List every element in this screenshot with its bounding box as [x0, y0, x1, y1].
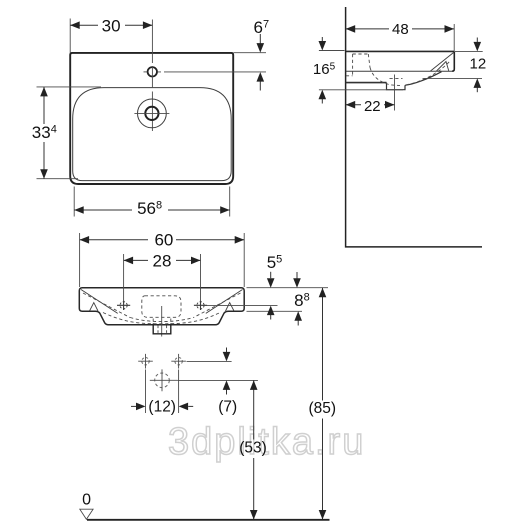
basin outer outline (plan) [70, 53, 233, 184]
svg-text:568: 568 [137, 199, 162, 218]
svg-text:88: 88 [294, 291, 310, 310]
plan vertical centerline [151, 20, 153, 132]
drain boss hidden dashes [158, 326, 167, 334]
dim 60 ext lines [80, 233, 245, 287]
bolt hole right [197, 302, 204, 309]
dim 8-8 arrows [296, 272, 298, 279]
dim 12 ext lines [455, 50, 483, 52]
datum triangle [80, 509, 93, 519]
dim (53) line + arrows [253, 380, 255, 519]
svg-text:30: 30 [102, 16, 121, 35]
dim (7) arrows [226, 348, 228, 354]
hidden bowl bottom dashed [130, 318, 194, 322]
dim 28 line + arrows [124, 259, 201, 261]
svg-text:12: 12 [470, 56, 487, 73]
svg-text:60: 60 [154, 230, 173, 249]
siphon line to right [178, 379, 258, 381]
dim 30 extension line left [69, 19, 71, 53]
basin right edge [452, 51, 454, 71]
hidden slope dashed left [83, 293, 130, 318]
svg-text:22: 22 [364, 98, 381, 115]
svg-text:165: 165 [313, 61, 336, 78]
hidden drain edges dashed [153, 319, 171, 325]
dim 48 ext right [453, 24, 455, 51]
fixing holes line to right [187, 360, 232, 362]
dim 6-7 arrows [259, 34, 261, 44]
hidden drain recess dashed [142, 296, 181, 318]
dim 30 line + arrows [70, 24, 152, 26]
dim 16-5 ext lines [319, 50, 345, 52]
dim (12) arrows outside [131, 405, 136, 407]
dim 5-5 arrows [270, 272, 272, 278]
fixing hole ext lines down [146, 370, 179, 414]
datum line [87, 519, 330, 521]
wall line [346, 7, 482, 247]
drain trap box [387, 83, 406, 90]
svg-text:67: 67 [254, 18, 270, 37]
dim 33-4 ext lines [37, 86, 102, 88]
V mark left [90, 303, 99, 311]
hidden drain opening (dashed) [390, 77, 403, 79]
bolt hole left [120, 302, 127, 309]
ext line bolt holes right (line2) [204, 305, 278, 307]
inner front slope diagonal [431, 53, 454, 71]
inner curve V marks [437, 62, 449, 72]
dim 22 line + arrows [346, 104, 395, 106]
faucet hole centerline to right (6-7 dim ref) [158, 71, 266, 73]
rim top line [346, 50, 455, 52]
svg-text:(7): (7) [218, 399, 237, 416]
svg-text:(53): (53) [239, 440, 267, 457]
faucet hole [148, 67, 157, 76]
ext line apron bottom right (line3) [247, 310, 303, 312]
siphon circle (dashed) [155, 373, 170, 388]
faucet hole left tick [144, 71, 148, 73]
fixing hole right [175, 358, 182, 365]
dim 12 arrows [476, 38, 478, 44]
V mark right [226, 303, 235, 311]
drain outer circle [138, 99, 167, 128]
svg-text:0: 0 [82, 491, 91, 508]
basin outline (front) [79, 288, 244, 325]
hidden bowl front curve (dashed) [406, 62, 450, 85]
drain boss [153, 325, 171, 334]
inner slope diagonal left [81, 290, 118, 314]
dim 33-4 line + arrows [43, 87, 45, 179]
basin front bottom line [346, 70, 452, 72]
drain inner circle [145, 107, 158, 120]
hidden overflow channel (dashed) [346, 54, 400, 86]
dim 28 ext lines [124, 254, 201, 302]
dim 16-5 arrows [321, 37, 323, 43]
svg-text:48: 48 [392, 21, 409, 38]
basin underside back line [346, 82, 387, 84]
svg-text:334: 334 [32, 123, 57, 142]
svg-text:(12): (12) [148, 399, 176, 416]
dim 56-8 line + arrows [74, 209, 230, 211]
inner bowl outline (plan) [73, 88, 232, 181]
dim 6-7 ext top [234, 52, 267, 54]
svg-text:(85): (85) [309, 400, 337, 417]
drain crosshair [134, 112, 169, 114]
siphon crosshair [150, 369, 178, 391]
watermark 3dplitka.ru [168, 423, 365, 461]
hidden bowl outer bottom dashed [103, 313, 220, 324]
ext line rim top right (line1) [247, 287, 329, 289]
hidden slope dashed right [194, 293, 241, 318]
drain centerline [394, 75, 396, 111]
dim (85) line + arrows [322, 288, 324, 520]
dim 60 line + arrows [80, 239, 245, 241]
front center line [161, 306, 163, 337]
inner slope diagonal right [206, 290, 243, 314]
dim 48 line + arrows [346, 28, 454, 30]
fixing hole left [142, 358, 149, 365]
svg-text:28: 28 [153, 251, 172, 270]
svg-text:55: 55 [267, 253, 283, 272]
dim 56-8 ext lines [73, 187, 75, 217]
underside front curve [405, 72, 442, 86]
